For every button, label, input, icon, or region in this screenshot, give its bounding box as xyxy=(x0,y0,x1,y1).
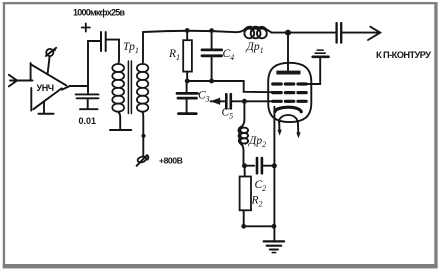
node (rail / anode) xyxy=(285,30,291,36)
wire: bottom rail xyxy=(244,225,274,227)
wire: cathode down-lead xyxy=(273,107,275,241)
svg-text:R1: R1 xyxy=(168,48,180,62)
svg-text:С4: С4 xyxy=(223,48,235,62)
transformer Тр1 core xyxy=(128,61,131,114)
wire: secondary bottom lead to +800V xyxy=(142,112,145,156)
inductor Др1 (anode choke) xyxy=(236,27,271,39)
svg-text:К П-КОНТУРУ: К П-КОНТУРУ xyxy=(376,50,431,60)
ground (main) xyxy=(264,241,284,252)
wire: top rail (right of choke) to output cap xyxy=(272,32,336,34)
wire: filament lead left with arrow xyxy=(277,122,281,135)
wire: filament lead right with arrow xyxy=(296,122,300,138)
resistor R1 xyxy=(183,30,192,81)
ground (screen grid, inverted bars) xyxy=(313,50,329,84)
capacitor (output coupling) xyxy=(337,23,342,43)
transformer Тр1 secondary winding xyxy=(137,64,148,112)
wire: amp output node xyxy=(70,41,101,86)
capacitor C5 with pointer arrow xyxy=(210,94,243,108)
connector +800V terminal xyxy=(137,155,149,166)
capacitor 1000мкфх25в (electrolytic) xyxy=(101,32,106,51)
svg-text:1000мкфх25в: 1000мкфх25в xyxy=(73,8,125,18)
node (rail / C4) xyxy=(209,28,214,33)
wire: anode lead xyxy=(287,33,289,71)
wire: cap to transformer xyxy=(106,39,119,41)
wire: top supply rail (left of choke) xyxy=(143,31,236,32)
tube grid 1 (dashes, grounded screen) xyxy=(273,82,306,85)
svg-text:УНЧ: УНЧ xyxy=(37,83,54,93)
wire: grid-3 lead xyxy=(246,100,276,102)
ground (amplifier) xyxy=(39,102,54,114)
svg-text:0.01: 0.01 xyxy=(79,116,97,126)
tube grid 3 (dashes) xyxy=(273,100,306,103)
node (Dr2 / C2 / R2) xyxy=(242,163,247,168)
node (C2 / cathode line) xyxy=(272,163,277,168)
svg-text:Тр1: Тр1 xyxy=(123,41,139,55)
svg-text:Др1: Др1 xyxy=(246,41,264,55)
wire: grid-1 to ground xyxy=(306,83,320,85)
capacitor 0.01 (bypass) xyxy=(76,86,99,109)
node (rail / R1) xyxy=(185,28,190,33)
wire: input lead with arrow xyxy=(9,75,33,87)
tube envelope xyxy=(268,63,311,122)
wire: primary bottom lead xyxy=(118,112,120,130)
wire: grid-2 junction line xyxy=(187,81,273,92)
svg-text:Др2: Др2 xyxy=(248,135,266,149)
node (R2 bottom) xyxy=(241,224,246,229)
svg-text:R2: R2 xyxy=(251,195,263,209)
tube filament arc xyxy=(279,115,298,122)
op-amp УНЧ (audio amplifier triangle) xyxy=(31,63,70,111)
ground (transformer primary) xyxy=(110,129,131,131)
svg-text:С2: С2 xyxy=(255,179,267,193)
microphone symbol xyxy=(46,48,56,74)
capacitor C2 xyxy=(244,158,274,173)
node (junction / C3) xyxy=(185,79,190,84)
node (bottom rail / cathode line) xyxy=(272,224,277,229)
resistor R2 xyxy=(240,166,251,227)
ground (C3) xyxy=(179,112,197,115)
polarity + xyxy=(82,23,90,31)
tube grid 2 (dashes) xyxy=(273,91,306,94)
transformer Тр1 primary winding xyxy=(112,64,124,112)
wire: output with arrow to П-contour xyxy=(342,27,380,40)
inductor Др2 (grid choke) xyxy=(239,101,249,164)
svg-text:С3: С3 xyxy=(198,90,210,104)
node (junction / C4 bottom) xyxy=(209,79,214,84)
capacitor C4 xyxy=(202,31,222,81)
svg-text:+800В: +800В xyxy=(159,156,183,166)
node (junction dot on +800V lead) xyxy=(141,134,145,138)
transformer Тр1 : primary lead xyxy=(117,40,120,64)
wire: secondary top lead to rail xyxy=(142,32,144,64)
capacitor C3 xyxy=(177,81,198,113)
tube cathode (thick arc) xyxy=(275,107,301,112)
node (C5 / grid-3 / Dr2) xyxy=(242,99,247,104)
tube anode plate xyxy=(276,71,300,75)
